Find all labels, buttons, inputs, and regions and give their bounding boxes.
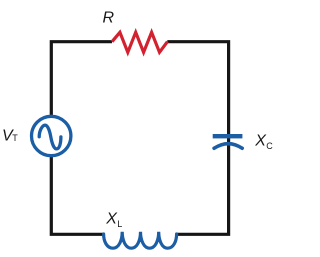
capacitor C1 flat plate xyxy=(213,134,243,138)
svg-text:T: T xyxy=(12,133,18,143)
AC source U1 circle xyxy=(32,116,71,155)
svg-text:L: L xyxy=(117,219,122,229)
inductor L1 xyxy=(104,232,177,248)
svg-text:R: R xyxy=(103,9,115,26)
capacitor C1 curved plate xyxy=(214,144,242,149)
wire top-right corner, right vertical, bottom-right corner xyxy=(167,42,228,235)
AC source sine wave xyxy=(39,125,61,149)
resistor R xyxy=(112,32,167,52)
wire left vertical lower segment and bottom-left corner xyxy=(51,157,104,234)
svg-text:C: C xyxy=(266,141,273,151)
wire top-left corner and left vertical upper segment xyxy=(51,42,112,116)
